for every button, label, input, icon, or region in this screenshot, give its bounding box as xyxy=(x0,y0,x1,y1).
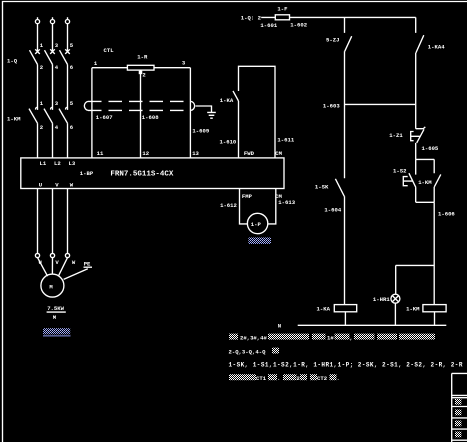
svg-text:CT2: CT2 xyxy=(317,375,328,382)
svg-text:1-Q: 1-Q xyxy=(7,57,18,64)
svg-text:1-609: 1-609 xyxy=(192,128,209,135)
svg-text:1-601: 1-601 xyxy=(260,22,277,29)
svg-text:N: N xyxy=(278,323,281,330)
svg-text:1-606: 1-606 xyxy=(438,210,455,217)
svg-text:CTL: CTL xyxy=(104,47,115,54)
svg-text:FWD: FWD xyxy=(244,150,255,157)
svg-text:.: . xyxy=(277,375,280,382)
svg-text:11: 11 xyxy=(97,150,104,157)
svg-text:,: , xyxy=(350,334,353,341)
svg-text:U: U xyxy=(39,181,42,188)
svg-text:1-612: 1-612 xyxy=(220,202,237,209)
svg-text:CT1: CT1 xyxy=(256,375,267,382)
svg-text:1-F: 1-F xyxy=(277,6,288,13)
svg-text:FMP: FMP xyxy=(242,193,253,200)
svg-text:L3: L3 xyxy=(69,160,76,167)
svg-text:1-608: 1-608 xyxy=(142,114,159,121)
svg-text:U: U xyxy=(39,259,42,266)
svg-text:FRN7.5G11S-4CX: FRN7.5G11S-4CX xyxy=(110,170,174,178)
svg-text:1-KA: 1-KA xyxy=(220,97,234,104)
svg-text:1-KM: 1-KM xyxy=(7,116,21,123)
svg-text:1-KA4: 1-KA4 xyxy=(428,44,445,51)
svg-text:1-BP: 1-BP xyxy=(80,170,94,177)
svg-text:1-613: 1-613 xyxy=(278,199,295,206)
svg-text:2-Q,3-Q,4-Q: 2-Q,3-Q,4-Q xyxy=(229,348,267,355)
svg-text:12: 12 xyxy=(142,150,149,157)
svg-text:1-Q: 2: 1-Q: 2 xyxy=(241,14,262,21)
svg-text:1-610: 1-610 xyxy=(220,138,237,145)
svg-text:L2: L2 xyxy=(54,160,61,167)
svg-text:L1: L1 xyxy=(40,160,47,167)
svg-text:CM: CM xyxy=(275,150,282,157)
svg-text:1-611: 1-611 xyxy=(277,136,294,143)
svg-text:1-S2: 1-S2 xyxy=(393,168,407,175)
svg-text:1-KM: 1-KM xyxy=(418,179,432,186)
svg-text:1-HR1: 1-HR1 xyxy=(373,296,390,303)
svg-text:1-605: 1-605 xyxy=(422,145,439,152)
svg-text:1-R: 1-R xyxy=(137,54,148,61)
svg-text:1-KA: 1-KA xyxy=(317,306,331,313)
svg-text:1-603: 1-603 xyxy=(323,102,340,109)
svg-text:PE: PE xyxy=(84,261,91,268)
svg-text:1-P: 1-P xyxy=(251,221,262,228)
svg-text:.: . xyxy=(337,375,340,382)
svg-text:2#,3#,4#: 2#,3#,4# xyxy=(240,334,267,341)
svg-text:1-602: 1-602 xyxy=(290,22,307,29)
svg-text:1-604: 1-604 xyxy=(324,207,341,214)
svg-text:1-607: 1-607 xyxy=(96,114,113,121)
svg-text:7.5KW: 7.5KW xyxy=(47,305,64,312)
svg-text:13: 13 xyxy=(192,150,199,157)
svg-text:5-ZJ: 5-ZJ xyxy=(326,37,339,44)
svg-text:1-KM: 1-KM xyxy=(406,306,420,313)
svg-text:1#: 1# xyxy=(327,334,334,341)
svg-text:1-Z1: 1-Z1 xyxy=(389,132,403,139)
svg-text:1-SK: 1-SK xyxy=(315,183,329,190)
svg-text:1-SK, 1-S1,1-S2,1-R, 1-HR1,1-P: 1-SK, 1-S1,1-S2,1-R, 1-HR1,1-P; 2-SK, 2-… xyxy=(229,361,463,368)
